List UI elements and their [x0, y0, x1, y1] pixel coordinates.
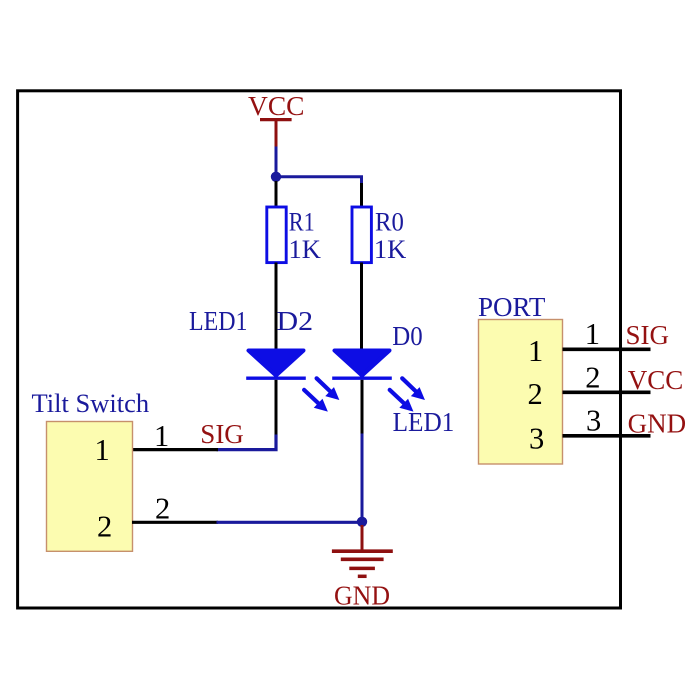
svg-text:R1: R1: [289, 206, 315, 236]
svg-text:1: 1: [154, 419, 169, 453]
svg-text:1: 1: [528, 334, 543, 368]
resistor R0: [352, 207, 371, 263]
wire node A to R0 top (horizontal + corner): [276, 177, 362, 185]
svg-text:1: 1: [95, 433, 110, 467]
junction node B: [357, 517, 367, 527]
svg-text:SIG: SIG: [200, 419, 244, 449]
svg-text:2: 2: [528, 377, 543, 411]
tilt switch body: [47, 422, 133, 552]
wire tilt switch pin 2 stub (black): [132, 521, 218, 524]
svg-text:SIG: SIG: [626, 320, 670, 350]
wire D2 cathode down: [275, 380, 278, 436]
schematic border frame: [18, 91, 621, 608]
svg-text:2: 2: [155, 492, 170, 526]
svg-text:2: 2: [585, 360, 600, 394]
svg-text:1: 1: [585, 317, 600, 351]
resistor R1: [267, 207, 286, 263]
PORT pin 3 wire: [563, 434, 651, 438]
svg-text:VCC: VCC: [248, 91, 305, 121]
wire R0 pin 2 to LED D0 anode: [360, 263, 363, 351]
light arrows of LED D0: [390, 378, 424, 411]
wire R1 pin 2 to LED D2 anode: [275, 263, 278, 351]
LED D0: [332, 351, 392, 379]
wire SIG corner (blue): [217, 435, 277, 450]
wire corner to R0 pin 1: [360, 183, 363, 207]
wire node A to R1 pin 1: [275, 181, 278, 207]
junction node A: [271, 172, 281, 182]
svg-text:R0: R0: [375, 206, 404, 236]
ground symbol: [332, 525, 393, 576]
power symbol VCC: [260, 120, 292, 148]
svg-text:GND: GND: [334, 580, 390, 610]
svg-text:GND: GND: [628, 408, 687, 438]
svg-text:PORT: PORT: [478, 292, 546, 322]
light arrows of LED D2: [304, 378, 338, 411]
wire VCC stub to node A: [275, 147, 278, 177]
PORT pin 2 wire: [563, 390, 651, 394]
svg-text:1K: 1K: [374, 234, 406, 264]
svg-text:LED1: LED1: [189, 306, 248, 336]
svg-text:3: 3: [586, 404, 601, 438]
svg-text:LED1: LED1: [393, 407, 455, 437]
svg-text:VCC: VCC: [628, 365, 684, 395]
wire tilt switch pin 1 stub (black): [132, 448, 218, 451]
wire D0 to GND node (blue): [361, 434, 364, 522]
svg-text:2: 2: [97, 509, 112, 543]
LED D2: [246, 351, 306, 379]
PORT pin 1 wire: [563, 347, 651, 351]
wire pin 2 to GND node (blue): [217, 521, 363, 524]
svg-text:3: 3: [529, 422, 544, 456]
svg-text:D2: D2: [277, 306, 314, 336]
svg-text:D0: D0: [392, 321, 422, 351]
wire D0 cathode down: [361, 380, 364, 435]
svg-text:1K: 1K: [289, 234, 321, 264]
connector PORT body: [479, 320, 563, 465]
svg-text:Tilt Switch: Tilt Switch: [32, 388, 150, 418]
